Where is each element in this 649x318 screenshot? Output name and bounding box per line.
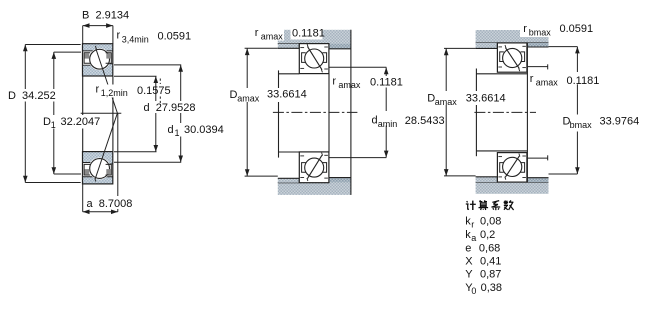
shaft left face (right view) [475, 69, 477, 157]
extension line right face [112, 26, 114, 44]
svg-text:0,68: 0,68 [479, 243, 500, 255]
cage pocket right (left view, bottom half) [106, 169, 110, 174]
r_amax gauge line bottom (right view) [527, 157, 547, 159]
housing slab bottom (right view) [476, 182, 549, 194]
svg-text:B 2.9134: B 2.9134 [82, 10, 129, 22]
bearing bottom section (right view) [497, 153, 527, 183]
housing slab top (middle view) [278, 30, 351, 44]
svg-text:32.2047: 32.2047 [61, 116, 101, 128]
housing shoulder tab bottom-left (middle view) [278, 178, 300, 182]
svg-text:1: 1 [51, 120, 56, 130]
svg-text:amax: amax [237, 94, 260, 104]
contact angle line (top half) [96, 49, 118, 114]
svg-text:0,41: 0,41 [480, 256, 501, 268]
cage pocket left (left view, bottom half) [85, 169, 90, 174]
bearing inner ring (left view, bottom half) [83, 152, 113, 164]
spacer strip top-right (middle view) [329, 44, 351, 49]
svg-text:a 8.7008: a 8.7008 [87, 198, 133, 210]
shoulder tab bottom-left (right view) [476, 177, 498, 182]
svg-text:0.0591: 0.0591 [158, 31, 192, 43]
svg-text:amax: amax [338, 80, 361, 90]
extension lines D1 [54, 51, 81, 53]
extension lines Damax (right view) [444, 47, 476, 49]
extension lines Dbmax (right view) [549, 46, 578, 48]
label backgrounds (right view) [426, 91, 507, 105]
svg-text:0.1575: 0.1575 [137, 85, 171, 97]
bottom section outline (left view) [83, 152, 113, 184]
svg-text:33.6614: 33.6614 [267, 89, 307, 101]
dimension line Damax (middle view) [246, 48, 248, 176]
housing shoulder tab top-left (middle view) [278, 44, 300, 49]
contact angle line (bottom half) [95, 113, 117, 179]
shaft surface lines (middle view) [279, 73, 300, 75]
top section outline (left view) [83, 44, 113, 76]
svg-text:bmax: bmax [570, 120, 593, 130]
svg-text:Y: Y [465, 269, 473, 281]
svg-text:r: r [96, 84, 100, 96]
label backgrounds (middle view) [228, 88, 307, 102]
svg-text:1,2min: 1,2min [101, 88, 128, 98]
svg-text:r: r [530, 73, 534, 85]
bearing top section (right view) [497, 43, 527, 72]
extension lines d [114, 75, 157, 77]
spacer strip bottom-right (right view) [527, 178, 549, 182]
leader dashes 0.1575 [159, 97, 161, 105]
dimension line Damax (right view) [445, 48, 447, 175]
shoulder tab top-left (right view) [476, 43, 498, 49]
svg-text:0,38: 0,38 [481, 282, 502, 294]
bearing ball (left view, top half) [89, 48, 111, 70]
dimension line d1 [180, 65, 182, 162]
axis line (middle view) [273, 111, 358, 113]
housing slab bottom (middle view) [278, 183, 351, 195]
bearing right face boundary (right view) [526, 43, 528, 182]
svg-text:bmax: bmax [529, 28, 552, 38]
extension line pressure centre (a) [117, 113, 119, 212]
cage pocket left (left view, top half) [85, 53, 90, 58]
svg-text:33.6614: 33.6614 [466, 92, 506, 104]
dimension line B [83, 25, 113, 27]
svg-text:0: 0 [471, 286, 476, 296]
extension lines Damax (middle view) [245, 47, 278, 49]
svg-text:0,2: 0,2 [480, 229, 495, 241]
shaft left face (middle view) [278, 70, 280, 157]
bearing axis line (left view) [81, 112, 122, 114]
svg-text:1: 1 [175, 128, 180, 138]
shaft surface lines (right view) [476, 73, 527, 75]
bearing top section (middle view) [299, 44, 329, 74]
bore face lines (left view) [82, 76, 84, 152]
bearing bottom section (middle view) [299, 152, 329, 183]
label backgrounds (left view) [6, 89, 57, 102]
outer vertical boundary (middle view) [350, 30, 352, 195]
svg-text:0.1181: 0.1181 [370, 77, 403, 89]
svg-text:amax: amax [261, 32, 284, 42]
svg-text:0,87: 0,87 [480, 269, 501, 281]
svg-text:3,4min: 3,4min [122, 35, 149, 45]
svg-text:d: d [168, 124, 174, 136]
svg-text:d: d [372, 115, 378, 127]
bearing ball (left view, bottom half) [89, 158, 111, 180]
shaft step face (middle view) [328, 74, 330, 152]
svg-text:amin: amin [378, 119, 398, 129]
dimension line d [155, 76, 157, 152]
extension line left face [82, 26, 84, 44]
svg-text:r: r [471, 220, 474, 230]
svg-text:33.9764: 33.9764 [600, 115, 640, 127]
svg-text:d 27.9528: d 27.9528 [144, 102, 196, 114]
dimension line Dbmax (right view) [576, 47, 578, 174]
bearing outer ring (left view, top half) [83, 44, 113, 52]
dimension line damin (middle view) [385, 67, 387, 157]
svg-text:r: r [117, 30, 121, 42]
bearing inner ring (left view, top half) [83, 64, 113, 76]
cage pocket right (left view, top half) [106, 53, 110, 58]
svg-text:X: X [465, 256, 473, 268]
table heading: calculation factors (vector CJK) [467, 201, 468, 202]
svg-text:amax: amax [435, 97, 458, 107]
spacer strip top-right (right view) [527, 43, 549, 47]
svg-text:r: r [332, 76, 336, 88]
svg-text:amax: amax [536, 78, 559, 88]
svg-text:0.1181: 0.1181 [292, 28, 325, 40]
dimension line a [83, 211, 118, 213]
svg-text:D: D [43, 116, 51, 128]
svg-text:30.0394: 30.0394 [184, 124, 224, 136]
svg-text:a: a [471, 233, 476, 243]
shaft step lines right (middle view) [329, 66, 387, 68]
bearing outer ring (left view, bottom half) [83, 176, 113, 184]
svg-text:e: e [465, 243, 471, 255]
housing slab top (right view) [476, 30, 549, 43]
svg-text:28.5433: 28.5433 [405, 115, 445, 127]
svg-text:r: r [255, 27, 259, 39]
svg-text:r: r [523, 23, 527, 35]
spacer strip bottom-right (middle view) [329, 178, 351, 183]
svg-text:0.0591: 0.0591 [560, 23, 594, 35]
dimension line D [24, 45, 26, 183]
extension lines d1 [114, 64, 181, 66]
extension lines D [25, 44, 80, 46]
r_amax gauge line top (right view) [527, 66, 547, 68]
svg-text:0,08: 0,08 [480, 216, 501, 228]
svg-text:0.1181: 0.1181 [567, 75, 600, 87]
axis line (right view) [474, 111, 536, 113]
dimension line D1 [53, 52, 55, 174]
svg-text:D 34.252: D 34.252 [8, 90, 56, 102]
